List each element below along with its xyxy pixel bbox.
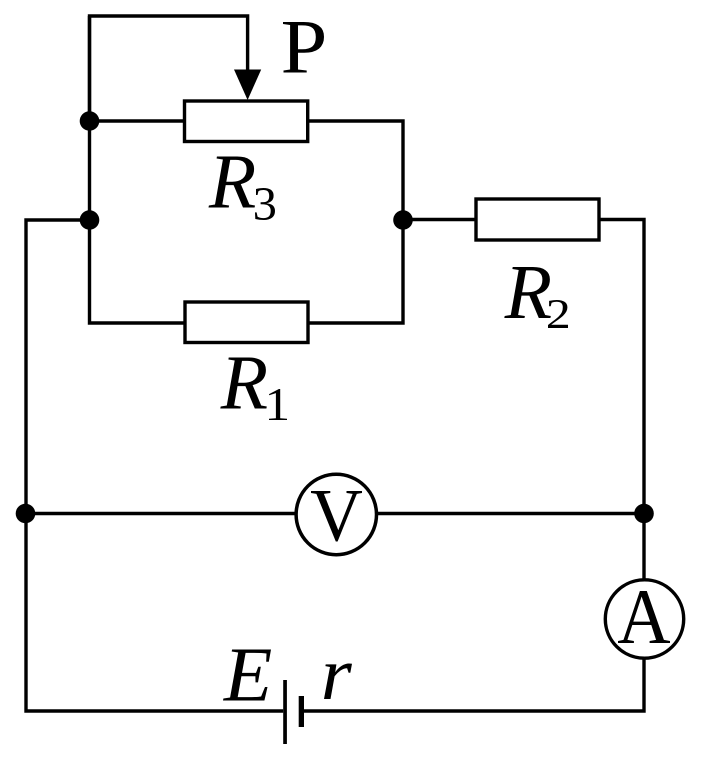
wire R3 left lead	[90, 119, 185, 122]
node junction dot left branch	[80, 210, 100, 230]
wire node B to left rail down to bottom left	[26, 220, 283, 711]
label r internal resistance	[324, 664, 352, 700]
label R1 subscript 1	[269, 389, 287, 420]
battery E long plate	[283, 680, 287, 744]
resistor R2	[476, 199, 599, 240]
voltmeter V letter	[311, 491, 362, 542]
node junction dot voltmeter right	[634, 504, 654, 524]
battery E short plate	[299, 696, 304, 727]
label R2 main	[504, 267, 551, 318]
resistor R1	[185, 302, 308, 343]
label E emf	[223, 650, 271, 701]
resistor R3 (potentiometer body)	[185, 101, 308, 142]
label R1 main	[220, 358, 266, 409]
wire R3 right lead down to R1 right lead	[308, 121, 403, 323]
node junction dot R3 left	[80, 111, 100, 131]
wire top loop (wiper connection)	[90, 16, 248, 121]
voltmeter V circle	[296, 474, 376, 554]
wire voltmeter row left	[26, 512, 296, 515]
wire ammeter bottom to battery	[304, 658, 644, 711]
ammeter A letter	[618, 591, 670, 643]
label R3 subscript 3	[255, 188, 275, 220]
label R3 main	[209, 157, 256, 208]
wire voltmeter row right	[378, 512, 644, 515]
wire R2 right lead and right rail	[599, 220, 644, 581]
label P	[283, 22, 324, 73]
node junction dot R2 left	[393, 210, 413, 230]
node junction dot voltmeter left	[16, 504, 36, 524]
ammeter A circle	[605, 580, 683, 658]
wiper arrow of potentiometer R3	[234, 70, 261, 101]
wire R2 left lead	[403, 218, 476, 221]
label R2 subscript 2	[548, 300, 568, 328]
wire left vertical branch with R1 left lead	[90, 16, 186, 323]
